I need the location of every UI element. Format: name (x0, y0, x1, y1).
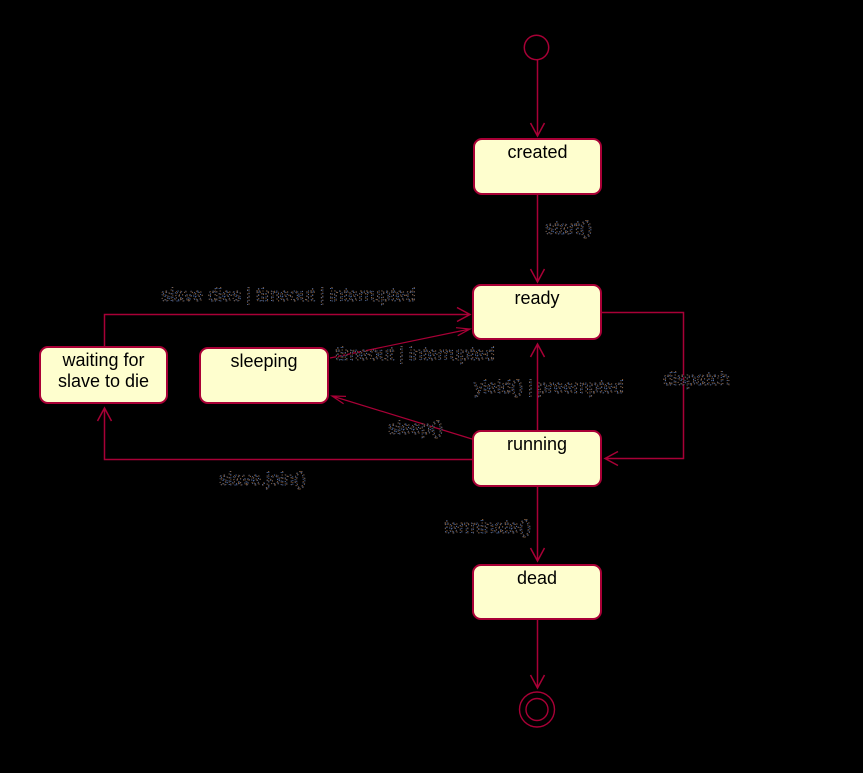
transition ready to running (dispatch) (602, 313, 684, 466)
transition created to ready (531, 195, 545, 282)
transition running to ready (yield/preempted) (531, 344, 545, 430)
transition dead to final (531, 620, 545, 688)
label slave.join() (219, 469, 306, 489)
label sleep() (388, 418, 443, 438)
label slave dies | timeout | interrupted (161, 285, 415, 305)
label timeout | interrupted (335, 344, 495, 364)
state created (473, 138, 602, 195)
svg-text:start(): start() (545, 218, 592, 238)
svg-text:yield() | preempted: yield() | preempted (474, 377, 624, 397)
label start() (545, 218, 592, 238)
state waiting for slave to die (39, 346, 168, 404)
state sleeping (199, 347, 329, 404)
transition waiting to ready (slave dies) (105, 308, 471, 347)
transition initial to created (531, 60, 545, 137)
final state (520, 692, 555, 727)
svg-text:dispatch: dispatch (663, 369, 730, 389)
transition running to dead (terminate) (531, 487, 545, 561)
transition running to waiting (slave.join) (98, 408, 473, 460)
label dispatch (663, 369, 730, 389)
transition sleeping to ready (timeout/interrupted) (330, 328, 470, 358)
svg-text:slave dies | timeout | interru: slave dies | timeout | interrupted (161, 285, 415, 305)
label terminate() (444, 517, 531, 537)
svg-text:timeout | interrupted: timeout | interrupted (335, 344, 495, 364)
svg-text:terminate(): terminate() (444, 517, 531, 537)
transition running to sleeping (sleep) (332, 396, 472, 439)
svg-text:slave.join(): slave.join() (219, 469, 306, 489)
svg-text:sleep(): sleep() (388, 418, 443, 438)
initial state (524, 35, 548, 59)
state running (472, 430, 602, 487)
state dead (472, 564, 602, 620)
state ready (472, 284, 602, 340)
label yield() | preempted (474, 377, 624, 397)
